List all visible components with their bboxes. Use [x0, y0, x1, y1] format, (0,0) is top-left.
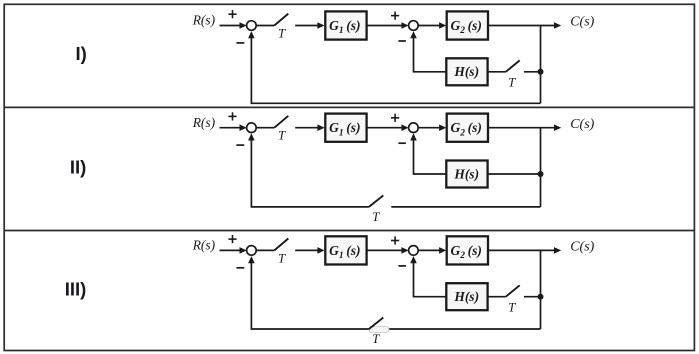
- block G1(s) (diagram I): [325, 11, 366, 39]
- svg-text:T: T: [372, 209, 380, 224]
- svg-text:T: T: [508, 74, 516, 89]
- row label II): [70, 157, 86, 178]
- label T of outer-loop sampler (diagram II): [372, 209, 380, 224]
- sampler switch arm on H path (diagram I): [506, 60, 520, 71]
- wire: block H to summer S2 (inner feedback) (diagram III): [410, 256, 446, 297]
- svg-text:H(s): H(s): [453, 166, 479, 181]
- table divider between row I and row II: [4, 106, 694, 108]
- plus sign at summer S1 (diagram III): [228, 235, 236, 243]
- wire: outer feedback loop, tap to summer S1 (diagram I): [248, 31, 540, 103]
- wire: outer feedback, sampler to summer S1 (diagram II): [248, 133, 369, 207]
- summing junction S2 (diagram I): [409, 21, 419, 31]
- block G1(s) (diagram III): [325, 236, 366, 264]
- wire: summer S2 to block G2 (diagram III): [418, 247, 446, 254]
- wire: block G2 to output C(s) (diagram III): [488, 247, 561, 254]
- svg-text:T: T: [372, 331, 380, 346]
- svg-text:R(s): R(s): [192, 238, 216, 253]
- wire: tap dot to block H (diagram II): [488, 173, 540, 175]
- block H(s) (diagram I): [446, 58, 487, 85]
- junction dot on feedback tap (diagram I): [538, 69, 544, 75]
- svg-text:III): III): [65, 279, 87, 300]
- block H(s) (diagram III): [446, 283, 487, 310]
- wire: R(s) to summer S1 (diagram II): [220, 124, 247, 131]
- junction dot on feedback tap (diagram III): [538, 294, 544, 300]
- node C(s) output label (diagram I): [570, 15, 594, 30]
- svg-text:R(s): R(s): [192, 115, 216, 130]
- wire: H-path sampler to block H (diagram III): [488, 296, 506, 298]
- summing junction S2 (diagram II): [409, 123, 419, 133]
- label T of input sampler (diagram II): [278, 128, 286, 143]
- sampler switch arm, input sampler (diagram III): [274, 239, 288, 251]
- highlight box on outer-loop sampler (diagram III): [369, 327, 389, 333]
- svg-text:C(s): C(s): [570, 240, 594, 255]
- svg-text:H(s): H(s): [453, 289, 479, 304]
- wire: R(s) to summer S1 (diagram I): [220, 22, 247, 29]
- wire: outer feedback, sampler to summer S1 (diagram III): [248, 256, 369, 329]
- row label III): [65, 279, 87, 300]
- svg-text:T: T: [278, 128, 286, 143]
- label T of input sampler (diagram III): [278, 250, 286, 265]
- summing junction S1 (diagram I): [247, 21, 257, 31]
- block G2(s) (diagram I): [447, 11, 488, 39]
- wire: outer feedback, tap to bottom sampler (diagram III): [389, 328, 541, 330]
- wire: tap dot to feedback sampler (diagram III): [524, 296, 541, 298]
- label T of input sampler (diagram I): [278, 25, 286, 40]
- minus sign at summer S1 (diagram III): [236, 267, 244, 269]
- svg-text:H(s): H(s): [453, 64, 479, 79]
- label T of outer-loop sampler (diagram III): [372, 331, 380, 346]
- wire: summer S1 to sampler pivot (diagram III): [256, 249, 274, 251]
- plus sign at summer S2 (diagram III): [391, 236, 399, 244]
- plus sign at summer S2 (diagram I): [391, 12, 399, 20]
- sampler switch arm on outer loop (diagram III): [369, 318, 383, 330]
- wire: input sampler to block G1 (diagram III): [295, 247, 324, 254]
- wire: block G2 to output C(s) (diagram II): [488, 124, 561, 131]
- node C(s) output label (diagram II): [570, 117, 594, 132]
- wire: input sampler to block G1 (diagram II): [295, 124, 324, 131]
- block H(s) (diagram II): [446, 161, 487, 188]
- wire: input sampler to block G1 (diagram I): [295, 22, 324, 29]
- summing junction S1 (diagram II): [247, 123, 257, 133]
- plus sign at summer S1 (diagram I): [228, 10, 236, 18]
- node R(s) input label (diagram III): [192, 238, 216, 253]
- label T of H-path sampler (diagram III): [508, 299, 516, 314]
- svg-text:T: T: [278, 250, 286, 265]
- wire: block H to summer S2 (inner feedback) (diagram II): [410, 133, 446, 174]
- wire: H-path sampler to block H (diagram I): [488, 71, 506, 73]
- plus sign at summer S1 (diagram II): [228, 112, 236, 120]
- sampler switch arm, input sampler (diagram I): [274, 14, 288, 26]
- node C(s) output label (diagram III): [570, 240, 594, 255]
- minus sign at summer S1 (diagram II): [236, 144, 244, 146]
- wire: output tap vertical drop (diagram I): [540, 26, 542, 104]
- wire: block G1 to summer S2 (diagram III): [367, 247, 409, 254]
- wire: summer S1 to sampler pivot (diagram II): [256, 127, 274, 129]
- wire: tap dot to feedback sampler (diagram I): [524, 71, 541, 73]
- wire: R(s) to summer S1 (diagram III): [220, 247, 247, 254]
- svg-text:T: T: [278, 25, 286, 40]
- block G2(s) (diagram II): [447, 114, 488, 142]
- wire: block H to summer S2 (inner feedback) (diagram I): [410, 31, 446, 72]
- svg-text:II): II): [70, 157, 86, 178]
- wire: block G1 to summer S2 (diagram II): [367, 124, 409, 131]
- svg-text:C(s): C(s): [570, 117, 594, 132]
- junction dot on feedback tap (diagram II): [538, 171, 544, 177]
- node R(s) input label (diagram II): [192, 115, 216, 130]
- sampler switch arm on outer loop (diagram II): [369, 195, 383, 207]
- minus sign at summer S2 (diagram III): [398, 265, 406, 267]
- sampler switch arm on H path (diagram III): [506, 285, 520, 296]
- table divider between row II and row III: [4, 230, 694, 232]
- wire: summer S2 to block G2 (diagram II): [418, 124, 446, 131]
- sampler switch arm, input sampler (diagram II): [274, 116, 288, 128]
- wire: block G2 to output C(s) (diagram I): [488, 22, 561, 29]
- summing junction S1 (diagram III): [247, 246, 257, 256]
- wire: summer S1 to sampler pivot (diagram I): [256, 25, 274, 27]
- minus sign at summer S2 (diagram II): [398, 142, 406, 144]
- plus sign at summer S2 (diagram II): [391, 114, 399, 122]
- row label I): [75, 43, 86, 64]
- label T of H-path sampler (diagram I): [508, 74, 516, 89]
- svg-text:T: T: [508, 299, 516, 314]
- minus sign at summer S2 (diagram I): [398, 40, 406, 42]
- svg-text:I): I): [75, 43, 86, 64]
- node R(s) input label (diagram I): [192, 13, 216, 28]
- svg-text:C(s): C(s): [570, 15, 594, 30]
- wire: summer S2 to block G2 (diagram I): [418, 22, 446, 29]
- minus sign at summer S1 (diagram I): [236, 42, 244, 44]
- wire: outer feedback, tap to bottom sampler (diagram II): [391, 206, 540, 208]
- block G1(s) (diagram II): [325, 114, 366, 142]
- summing junction S2 (diagram III): [409, 246, 419, 256]
- block G2(s) (diagram III): [447, 236, 488, 264]
- wire: output tap vertical drop (diagram III): [540, 250, 542, 329]
- svg-text:R(s): R(s): [192, 13, 216, 28]
- wire: output tap vertical drop (diagram II): [540, 128, 542, 207]
- wire: block G1 to summer S2 (diagram I): [367, 22, 409, 29]
